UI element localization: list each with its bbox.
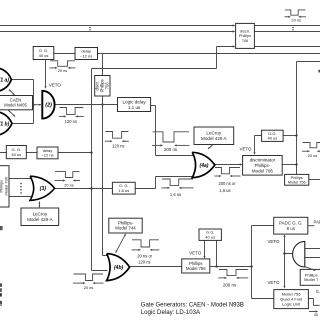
svg-text:LeCroy: LeCroy bbox=[206, 131, 222, 136]
svg-text:40 us: 40 us bbox=[205, 234, 215, 239]
svg-text:Phillips: Phillips bbox=[291, 176, 303, 180]
svg-text:Logic Unit: Logic Unit bbox=[282, 302, 301, 307]
svg-text:706: 706 bbox=[105, 82, 110, 90]
svg-text:20 ns: 20 ns bbox=[308, 153, 318, 158]
svg-text:1,6 us: 1,6 us bbox=[219, 188, 230, 193]
svg-text:(1 b): (1 b) bbox=[0, 121, 10, 127]
svg-text:VETO: VETO bbox=[49, 83, 61, 88]
svg-text:1,6 us: 1,6 us bbox=[170, 192, 181, 197]
svg-text:1.1 us: 1.1 us bbox=[128, 105, 141, 110]
svg-text:Gate Generators: CAEN - Model: Gate Generators: CAEN - Model N93B bbox=[141, 302, 244, 308]
svg-text:200 ns or: 200 ns or bbox=[218, 181, 236, 186]
svg-text:Logic Delay: LD-103A: Logic Delay: LD-103A bbox=[141, 309, 201, 316]
svg-text:(3): (3) bbox=[40, 186, 47, 192]
svg-text:20 ns: 20 ns bbox=[84, 285, 94, 290]
svg-text:20 ns: 20 ns bbox=[291, 17, 301, 22]
svg-text:8 us: 8 us bbox=[287, 226, 296, 231]
svg-text:(1 a): (1 a) bbox=[0, 78, 9, 84]
svg-text:discriminator: discriminator bbox=[250, 157, 276, 162]
svg-text:~12 ns: ~12 ns bbox=[41, 153, 53, 158]
svg-text:120 ns: 120 ns bbox=[65, 119, 77, 124]
svg-text:Phillips: Phillips bbox=[239, 34, 251, 38]
svg-text:PADC: PADC bbox=[314, 220, 320, 225]
svg-text:200 ns: 200 ns bbox=[223, 283, 237, 288]
svg-text:20 ns: 20 ns bbox=[58, 68, 68, 73]
svg-text:40 us: 40 us bbox=[11, 152, 21, 157]
svg-text:20 ns or: 20 ns or bbox=[137, 253, 152, 258]
svg-text:20 ns: 20 ns bbox=[64, 182, 74, 187]
svg-text:Model 744: Model 744 bbox=[115, 226, 136, 231]
svg-text:Model 429-A: Model 429-A bbox=[27, 217, 53, 222]
svg-text:Model 706: Model 706 bbox=[4, 176, 9, 195]
svg-text:~12 ns: ~12 ns bbox=[80, 53, 92, 58]
svg-text:discri.: discri. bbox=[240, 30, 250, 34]
svg-text:120 ns: 120 ns bbox=[138, 260, 150, 265]
svg-text:120 ns: 120 ns bbox=[112, 143, 124, 148]
svg-text:VETO: VETO bbox=[268, 280, 280, 285]
svg-text:Phillips-: Phillips- bbox=[118, 220, 134, 225]
svg-text:Logic delay: Logic delay bbox=[122, 99, 146, 104]
svg-text:G.G: G.G bbox=[316, 289, 320, 294]
svg-text:1.6 us: 1.6 us bbox=[118, 188, 129, 193]
svg-text:Phillips-: Phillips- bbox=[255, 163, 271, 168]
svg-text:Model 756: Model 756 bbox=[288, 180, 306, 184]
svg-text:(4b): (4b) bbox=[114, 265, 124, 271]
svg-text:Model 7: Model 7 bbox=[304, 277, 319, 282]
svg-text:LeCroy: LeCroy bbox=[33, 212, 48, 217]
svg-text:40 us: 40 us bbox=[268, 136, 278, 141]
svg-text:Model 756: Model 756 bbox=[186, 266, 206, 271]
svg-text:40 us: 40 us bbox=[39, 53, 49, 58]
svg-text:VETO: VETO bbox=[268, 239, 280, 244]
svg-text:VETO: VETO bbox=[189, 250, 201, 255]
svg-text:(4a): (4a) bbox=[200, 163, 209, 169]
svg-text:706: 706 bbox=[242, 39, 248, 43]
svg-text:Model 429 A: Model 429 A bbox=[201, 136, 227, 141]
svg-text:(2): (2) bbox=[45, 103, 52, 109]
svg-text:VETO: VETO bbox=[240, 147, 252, 152]
svg-text:Model 706: Model 706 bbox=[252, 168, 274, 173]
svg-text:200 ns: 200 ns bbox=[164, 147, 178, 152]
svg-text:Model N405: Model N405 bbox=[4, 103, 27, 108]
svg-text:PADC G. G.: PADC G. G. bbox=[279, 221, 303, 226]
